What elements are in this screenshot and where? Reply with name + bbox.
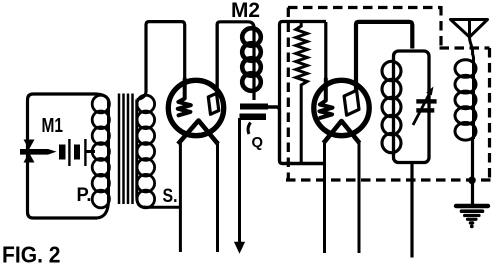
ground dot (470, 225, 474, 229)
wire coil to ground (471, 138, 474, 204)
choke coil M2 (242, 28, 261, 91)
crystal detector M1 (20, 140, 57, 163)
filament leg wire (323, 141, 326, 253)
ground (456, 206, 488, 223)
wire grid V2 (324, 22, 327, 80)
capacitor Q (240, 104, 269, 121)
antenna coil L2 (455, 53, 476, 140)
wire grid loop V1 (inverted U) (146, 22, 185, 92)
resistor R1 (296, 22, 307, 164)
wire plate V2 to tank (356, 22, 412, 90)
tank circuit box (394, 51, 430, 163)
dashed enclosure (286, 6, 491, 180)
tank coil L1 (382, 61, 401, 152)
junction node (468, 177, 476, 185)
wire plate V1 to M2 (217, 22, 254, 100)
svg-text:P.: P. (77, 185, 92, 206)
svg-text:S.: S. (163, 186, 178, 207)
wire secondary bottom to filament (143, 206, 180, 209)
tube V1 grid (178, 79, 191, 115)
tube V2 envelope (314, 80, 369, 135)
output arrow wire (238, 118, 241, 243)
filament leg wire (179, 141, 182, 252)
svg-text:Q: Q (252, 134, 264, 151)
tube V1 filament (178, 121, 218, 145)
label Q tick (248, 123, 250, 135)
variable capacitor C1 (413, 87, 437, 126)
filament leg wire (216, 141, 219, 252)
svg-text:M1: M1 (42, 115, 64, 137)
battery B1 (59, 139, 87, 166)
transformer primary P (92, 94, 109, 218)
wire capacitor Q to grid leak (266, 107, 325, 164)
filament leg wire (358, 141, 361, 253)
tube V2 grid (320, 79, 333, 118)
transformer secondary S (137, 91, 155, 208)
svg-text:FIG. 2: FIG. 2 (2, 242, 61, 266)
tube V1 plate (216, 24, 219, 93)
wire tank bottom (410, 163, 413, 258)
wire battery to primary (87, 150, 96, 153)
arrowhead (234, 242, 245, 254)
wire grid leak left (280, 22, 327, 111)
transformer core (119, 94, 133, 205)
tube V1 envelope (168, 80, 223, 135)
tube V2 filament (324, 121, 360, 143)
antenna (451, 20, 488, 55)
detector box outline (28, 94, 98, 218)
svg-text:M2: M2 (231, 0, 260, 22)
tube V2 plate (344, 90, 359, 115)
